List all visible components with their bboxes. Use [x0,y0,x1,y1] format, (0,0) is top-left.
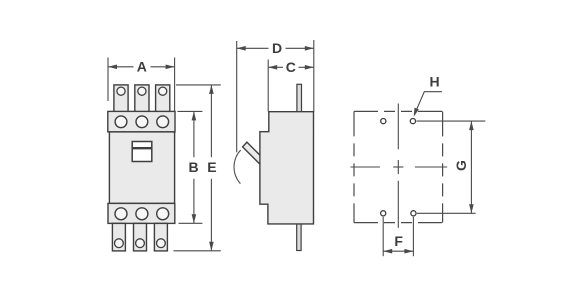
svg-text:G: G [453,160,469,171]
dimension B line with arrows [192,111,197,223]
front top terminal tab 2 [135,85,149,112]
front top terminal block [108,111,175,131]
dimension D line with arrows [237,46,314,51]
bottom terminal screw 3 [157,208,169,220]
dimension B extension line bottom [179,222,203,224]
svg-text:A: A [137,59,147,75]
mounting hole top-right [410,119,415,124]
side toggle handle [243,142,261,165]
front view: dimension A extension line left [107,58,109,102]
front bottom terminal tab 3 [154,223,167,251]
dimension G line with arrows [469,121,474,213]
bottom terminal screw 1 [115,208,127,220]
vertical centerline [397,104,399,228]
side top terminal pin [297,84,302,112]
dimension F extension line right [412,217,414,256]
mounting hole bottom-left [381,211,386,216]
mounting plate outline left edge [353,111,355,222]
front view: dimension A extension line right [174,58,176,112]
top terminal screw 3 [157,116,169,128]
front handle window [132,142,152,162]
front bottom terminal tab 2 [134,223,147,251]
svg-text:E: E [207,159,216,175]
handle travel arc [234,150,241,184]
side view: dimension D extension line right [313,40,315,112]
dimension E line with arrows [209,85,214,251]
dimension G extension line bottom [417,212,476,214]
top terminal screw 2 [136,116,148,128]
mounting plate outline bottom edge [354,222,443,224]
dimension G extension line top [417,120,486,122]
svg-text:B: B [189,159,199,175]
side view: dimension D extension line left [236,41,238,152]
svg-text:F: F [394,233,403,249]
dimension F extension line left [382,217,384,256]
mounting plate outline right edge [442,111,444,222]
dimension B extension line top [177,110,202,112]
dimension C line with arrows [268,65,314,70]
top terminal screw 1 [115,116,127,128]
leader line H with arrow [414,92,442,117]
dimension E extension line top [176,84,221,86]
side bottom terminal pin [297,224,301,251]
svg-text:C: C [286,59,296,75]
dimension F line with arrows [383,249,413,254]
front bottom terminal block [108,203,175,223]
handle window divider [132,147,152,149]
dimension E extension line bottom [174,250,221,252]
front top terminal tab 1 [114,85,128,112]
dimension A line with arrows [108,65,175,70]
svg-text:D: D [272,40,282,56]
horizontal centerline [350,166,447,168]
svg-text:H: H [429,74,439,90]
dimension C extension line left [267,60,269,112]
side body [260,112,314,224]
front top terminal tab 3 [156,85,170,112]
mounting plate outline top edge [354,110,443,112]
front bottom terminal tab 1 [112,223,125,251]
mounting hole top-left [381,119,386,124]
front body [109,132,174,204]
mounting hole bottom-right [411,211,416,216]
bottom terminal screw 2 [136,208,148,220]
